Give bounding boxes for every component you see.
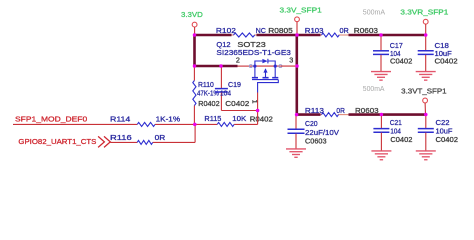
- label 500mA top: [363, 10, 386, 17]
- label R102 footprint R0805: [268, 26, 293, 35]
- label Q12 pin 1: [251, 100, 260, 104]
- svg-text:104: 104: [220, 88, 231, 97]
- node 3.3VR_SFP1 junction: [424, 33, 428, 37]
- label R113 footprint R0603: [355, 106, 379, 115]
- svg-text:R113: R113: [305, 106, 324, 115]
- svg-text:C0603: C0603: [305, 136, 327, 145]
- wire 3.3VT_SFP1 stem: [424, 103, 426, 115]
- svg-text:R0402: R0402: [250, 114, 273, 123]
- svg-text:3.3V_SFP1: 3.3V_SFP1: [280, 5, 322, 14]
- ground C18: [416, 72, 436, 81]
- wire 3.3VD down: [193, 34, 196, 66]
- capacitor C22: [418, 115, 453, 151]
- power symbol 3.3VT_SFP1: [401, 86, 446, 103]
- wire R116 up to junction: [194, 124, 196, 142]
- resistor R110: [193, 66, 219, 124]
- wire R102 to 3.3V_SFP1 node: [257, 34, 321, 37]
- ground C17: [371, 72, 391, 81]
- wire 3.3VD stem: [194, 27, 196, 35]
- label Q12 pin 2: [236, 56, 240, 65]
- node 3.3V_SFP1 junction: [295, 33, 299, 37]
- svg-text:R0805: R0805: [268, 26, 293, 35]
- svg-text:3.3VD: 3.3VD: [181, 10, 203, 19]
- svg-text:3.3VR_SFP1: 3.3VR_SFP1: [400, 8, 448, 17]
- svg-text:1K-1%: 1K-1%: [156, 115, 181, 124]
- svg-text:C20: C20: [305, 119, 318, 128]
- wire Q12 gate down: [257, 93, 259, 111]
- power symbol 3.3V_SFP1: [280, 5, 322, 21]
- svg-text:NC: NC: [256, 26, 267, 35]
- node gate junction: [256, 109, 260, 113]
- power symbol 3.3VR_SFP1: [400, 8, 448, 25]
- svg-text:0R: 0R: [336, 106, 345, 115]
- svg-text:R103: R103: [305, 26, 324, 35]
- label C17 footprint C0402: [390, 57, 412, 66]
- node Q12 pin 3 junction: [295, 64, 299, 68]
- resistor R113: [305, 106, 349, 117]
- resistor R115: [195, 114, 258, 126]
- label Q12 part number: [216, 48, 291, 57]
- label Q12 pin 3: [289, 56, 293, 65]
- label C18 footprint C0402: [435, 57, 458, 66]
- offpage connector chevrons: [98, 136, 110, 147]
- net label SFP1_MOD_DEF0: [15, 115, 87, 124]
- wire to Q12 pin 2: [195, 65, 238, 68]
- wire 3.3V_SFP1 stem: [296, 22, 298, 35]
- svg-text:C0402: C0402: [225, 99, 249, 108]
- svg-text:R102: R102: [216, 26, 236, 35]
- svg-text:SFP1_MOD_DEF0: SFP1_MOD_DEF0: [15, 115, 87, 124]
- ground C20: [286, 149, 306, 157]
- svg-text:500mA: 500mA: [363, 10, 386, 17]
- svg-text:C0402: C0402: [436, 135, 459, 144]
- capacitor C19: [215, 66, 241, 111]
- wire Q12 pin 3 stub: [280, 65, 297, 67]
- node C17 junction: [379, 33, 383, 37]
- label C21 footprint C0402: [390, 135, 412, 144]
- svg-text:3.3VT_SFP1: 3.3VT_SFP1: [401, 86, 446, 95]
- node C19 junction: [219, 64, 223, 68]
- net label GPIO82_UART1_CTS: [18, 137, 96, 146]
- node R114 R115 R110 R116 junction: [193, 123, 197, 127]
- wire 3.3V_SFP1 to R113: [297, 113, 321, 116]
- wire 3.3V_SFP1 down: [295, 35, 298, 115]
- label C20 footprint C0603: [305, 136, 327, 145]
- wire R115 to gate node: [257, 111, 259, 125]
- svg-text:500mA: 500mA: [363, 86, 385, 93]
- svg-text:3: 3: [289, 56, 293, 65]
- wire C19 to gate node: [221, 110, 257, 112]
- label R110 footprint R0402: [198, 99, 219, 108]
- capacitor C20: [288, 115, 340, 149]
- svg-text:R114: R114: [110, 115, 130, 124]
- svg-text:10K: 10K: [232, 114, 246, 123]
- wire R113 to 3.3VT_SFP1: [349, 113, 426, 116]
- svg-text:C0402: C0402: [390, 57, 412, 66]
- ground C21: [371, 151, 391, 160]
- wire 3.3VD to R102: [195, 34, 232, 37]
- wire Q12 pin 2 stub: [238, 65, 252, 67]
- svg-text:SI2365EDS-T1-GE3: SI2365EDS-T1-GE3: [216, 48, 291, 57]
- capacitor C21: [373, 115, 402, 151]
- label C19 footprint C0402: [225, 99, 249, 108]
- svg-text:0R: 0R: [340, 26, 349, 35]
- svg-text:R116: R116: [110, 133, 132, 142]
- label C22 footprint C0402: [436, 135, 459, 144]
- node 3.3VD junction: [193, 33, 197, 37]
- svg-text:GPIO82_UART1_CTS: GPIO82_UART1_CTS: [18, 137, 96, 146]
- svg-text:R115: R115: [204, 114, 221, 123]
- node 3.3VT_SFP1 junction: [424, 113, 428, 117]
- label 500mA bottom: [363, 86, 385, 93]
- resistor R116: [110, 133, 195, 144]
- resistor R114: [110, 115, 195, 127]
- node C20 junction: [295, 113, 299, 117]
- label R115 footprint R0402: [250, 114, 273, 123]
- svg-text:R0603: R0603: [354, 26, 378, 35]
- resistor R103: [305, 26, 349, 37]
- svg-text:0R: 0R: [155, 133, 166, 142]
- resistor R102: [216, 26, 267, 37]
- label R103 footprint R0603: [354, 26, 378, 35]
- capacitor C17: [373, 35, 403, 72]
- transistor Q12: [249, 59, 282, 93]
- svg-text:C0402: C0402: [390, 135, 412, 144]
- node C21 junction: [380, 113, 384, 117]
- svg-text:C0402: C0402: [435, 57, 458, 66]
- power symbol 3.3VD: [181, 10, 203, 27]
- node R110 junction: [193, 64, 197, 68]
- svg-text:47K-1%: 47K-1%: [197, 88, 219, 97]
- capacitor C18: [418, 35, 453, 72]
- svg-text:2: 2: [236, 56, 240, 65]
- label Q12 designator: [216, 40, 265, 49]
- wire R103 to 3.3VR_SFP1: [349, 34, 426, 37]
- svg-text:R0402: R0402: [198, 99, 219, 108]
- wire 3.3VR_SFP1 stem: [425, 24, 427, 35]
- wire GPIO82 to R116: [110, 141, 137, 143]
- wire SFP1_MOD_DEF0: [13, 123, 137, 125]
- ground C22: [416, 151, 436, 160]
